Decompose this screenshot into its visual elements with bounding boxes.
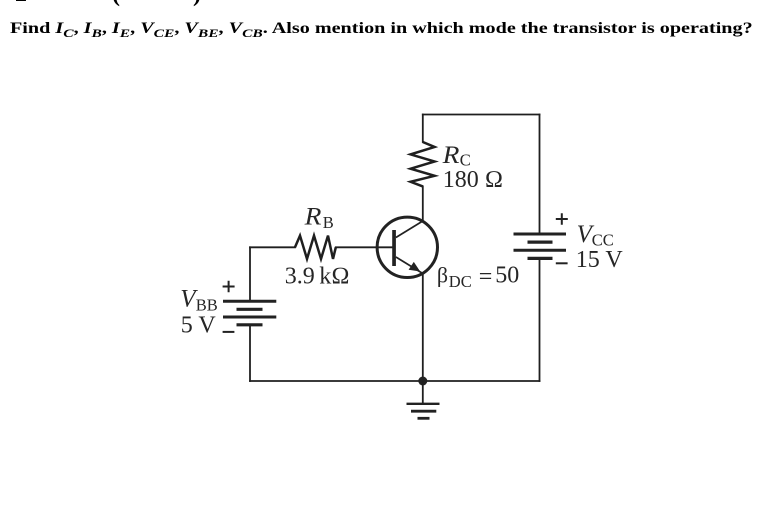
svg-text:β: β (437, 263, 448, 288)
svg-text:3.9: 3.9 (285, 264, 315, 290)
svg-text:DC: DC (449, 272, 472, 291)
svg-text:180 Ω: 180 Ω (443, 167, 503, 193)
svg-text:R: R (304, 204, 322, 231)
svg-text:B: B (323, 213, 334, 232)
svg-text:kΩ: kΩ (319, 264, 349, 290)
svg-text:R: R (442, 142, 460, 169)
svg-text:15 V: 15 V (576, 247, 624, 273)
svg-text:5 V: 5 V (181, 313, 217, 339)
svg-text:50: 50 (495, 263, 519, 289)
svg-text:=: = (479, 264, 493, 290)
